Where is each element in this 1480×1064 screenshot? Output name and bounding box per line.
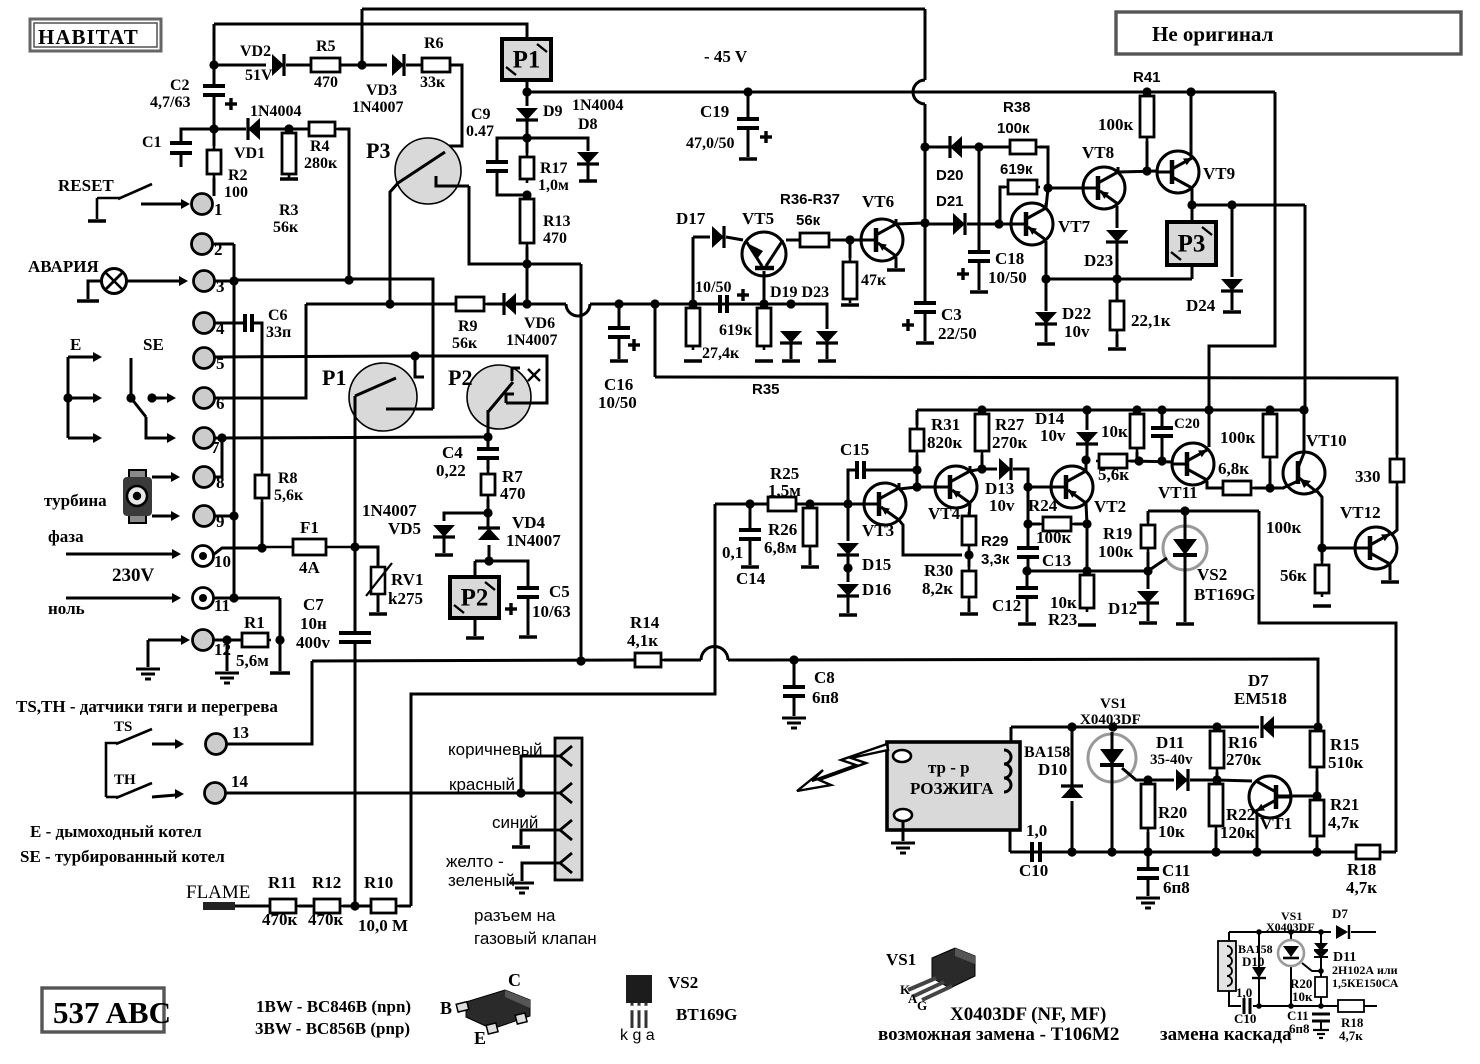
- svg-text:VS2: VS2: [668, 973, 698, 992]
- wire D12 stub: [1147, 571, 1150, 589]
- node t5/P2 box: [410, 351, 419, 360]
- svg-text:замена каскада: замена каскада: [1160, 1024, 1292, 1045]
- node SE pivot: [126, 393, 135, 402]
- wire VT5-R36: [786, 239, 800, 242]
- svg-text:0,1: 0,1: [722, 543, 743, 562]
- svg-text:6,8м: 6,8м: [764, 538, 797, 557]
- svg-text:R12: R12: [312, 873, 341, 892]
- svg-text:100к: 100к: [1266, 518, 1302, 537]
- svg-text:4,7к: 4,7к: [1328, 813, 1359, 832]
- svg-text:D12: D12: [1108, 599, 1137, 618]
- node R35 rail tap: [650, 299, 659, 308]
- resistor R22 120k: [1209, 780, 1223, 830]
- svg-text:10/50: 10/50: [598, 393, 637, 412]
- wire VT2 emitter: [1086, 503, 1087, 524]
- transistor VT2: [1051, 466, 1093, 508]
- svg-text:R15: R15: [1330, 735, 1359, 754]
- contact P3 internals: [398, 152, 469, 186]
- wire R29 bottom: [968, 549, 971, 567]
- svg-text:G: G: [917, 998, 927, 1013]
- svg-text:X0403DF: X0403DF: [1266, 920, 1315, 934]
- svg-text:100к: 100к: [1220, 428, 1256, 447]
- transistor VT9: [1157, 151, 1199, 193]
- svg-text:VS2: VS2: [1197, 565, 1227, 584]
- contact P1 internals: [355, 356, 433, 409]
- terminal bar C19: [739, 157, 757, 161]
- resistor R9 56k: [453, 297, 487, 311]
- wire terminal5 row: [215, 356, 415, 357]
- zener D22: [1035, 312, 1057, 324]
- svg-text:D11: D11: [1156, 733, 1184, 752]
- node 619k/R38/VT7c: [1043, 183, 1052, 192]
- wire t12 arrow: [148, 639, 182, 642]
- svg-text:10v: 10v: [1040, 426, 1066, 445]
- resistor 5,6k: [1096, 454, 1130, 468]
- svg-text:51V: 51V: [245, 67, 273, 84]
- wire VT7 collector: [1046, 188, 1048, 208]
- wire VT12 base row: [1322, 547, 1355, 550]
- svg-text:D16: D16: [862, 580, 891, 599]
- wire t7-t8 link: [215, 438, 222, 477]
- node R26 top: [805, 499, 814, 508]
- svg-text:2Н102А или: 2Н102А или: [1332, 963, 1398, 977]
- wire y410 rail: [917, 409, 1304, 412]
- switch RESET: [97, 184, 152, 219]
- resistor 6,8k: [1220, 481, 1254, 495]
- capacitor C5 10/63: [517, 588, 539, 597]
- svg-text:желто -: желто -: [446, 852, 504, 871]
- wire VD2 row: [214, 64, 266, 67]
- node D20 tee: [920, 142, 929, 151]
- wire E bracket: [67, 357, 70, 438]
- wire R2 to terminal1: [213, 178, 216, 196]
- svg-text:6п8: 6п8: [1289, 1021, 1310, 1036]
- node VS1 anode: [1108, 722, 1117, 731]
- svg-text:1N4004: 1N4004: [250, 103, 302, 120]
- wire C8 bottom: [793, 696, 796, 716]
- resistor 100k (R40): [1140, 92, 1154, 141]
- svg-text:R24: R24: [1028, 496, 1058, 515]
- svg-text:10к: 10к: [1292, 989, 1313, 1004]
- wire C18 riser: [978, 147, 981, 252]
- svg-text:537 ABC: 537 ABC: [53, 995, 171, 1030]
- svg-text:1N4004: 1N4004: [572, 97, 624, 114]
- transistor VT1: [1249, 776, 1291, 818]
- svg-text:VD3: VD3: [366, 82, 397, 99]
- wire D14 bottom: [1086, 445, 1089, 460]
- svg-text:10н: 10н: [300, 614, 327, 633]
- wire VT1 collector row: [1217, 780, 1252, 781]
- transistor VT6: [861, 219, 903, 261]
- fuse F1 4A: [262, 539, 355, 555]
- wire R16 bottom: [1216, 772, 1219, 780]
- svg-text:C6: C6: [268, 307, 288, 324]
- None: [450, 577, 499, 618]
- wire C14 stub: [749, 504, 752, 530]
- svg-text:56к: 56к: [452, 335, 478, 352]
- diode D17: [712, 226, 724, 248]
- node C12 top: [1022, 566, 1031, 575]
- wire t11 row: [214, 597, 280, 600]
- svg-text:VT8: VT8: [1082, 143, 1114, 162]
- wire C11 bottom: [1147, 878, 1150, 896]
- wire C16 bottom: [618, 337, 621, 359]
- svg-text:D7: D7: [1332, 906, 1348, 921]
- package SOT-23 drawing: [456, 990, 530, 1034]
- svg-text:VD4: VD4: [512, 513, 546, 532]
- wire VT6 collector: [896, 223, 925, 224]
- svg-text:100к: 100к: [997, 120, 1030, 137]
- svg-text:газовый клапан: газовый клапан: [474, 929, 597, 948]
- resistor R18 4,7k: [1353, 845, 1383, 859]
- resistor R21 4,7k: [1310, 796, 1324, 840]
- wire fuse-RV1: [355, 547, 378, 567]
- transistor VT8: [1083, 167, 1125, 209]
- node C15/D15: [843, 499, 852, 508]
- svg-text:C9: C9: [471, 106, 491, 123]
- node VT9/P3b: [1187, 200, 1196, 209]
- wire C14 bottom: [749, 539, 752, 565]
- svg-text:C18: C18: [995, 249, 1024, 268]
- package TO-92 VS1 3D: [908, 948, 975, 1000]
- resistor R38 100k: [1007, 140, 1039, 154]
- subcircuit resistor R20 small: [1315, 977, 1327, 997]
- svg-text:0,22: 0,22: [436, 461, 466, 480]
- capacitor C1: [170, 143, 192, 153]
- svg-text:470к: 470к: [262, 910, 298, 929]
- wire R1 left gnd: [226, 640, 229, 671]
- node VT3c/VT4b: [912, 482, 921, 491]
- None: [88, 219, 106, 223]
- diode D21: [953, 213, 965, 235]
- zener D23a: [816, 331, 838, 343]
- wire C13 bottom: [1027, 557, 1030, 571]
- wire C1 stub: [180, 152, 183, 167]
- diode VD1 1N4004: [248, 118, 260, 140]
- svg-text:1: 1: [214, 200, 223, 219]
- zener D14 10v: [1076, 432, 1098, 444]
- wire VT11 collector: [1208, 410, 1211, 447]
- wire VT10 collector: [1303, 410, 1306, 452]
- wire R31 top corner: [916, 410, 919, 425]
- node VS2 anode: [1180, 506, 1189, 515]
- wire 22,1k top stub: [1116, 279, 1119, 301]
- svg-text:4,1к: 4,1к: [627, 631, 658, 650]
- resistor R14 4,1k: [632, 653, 664, 667]
- wire R4 right riser: [338, 129, 349, 280]
- terminal 11 (ноль): [193, 588, 214, 609]
- wire C2-VD1 node: [213, 95, 216, 146]
- node D7/R15: [1313, 722, 1322, 731]
- wire R9-VD6: [487, 303, 504, 306]
- frame 537 ABC: [42, 988, 164, 1032]
- svg-text:10: 10: [214, 552, 231, 571]
- svg-text:C12: C12: [992, 596, 1021, 615]
- svg-text:1N4007: 1N4007: [362, 501, 417, 520]
- svg-text:1,0м: 1,0м: [538, 177, 569, 194]
- subcircuit diode D7 small: [1336, 925, 1349, 939]
- zener D24: [1221, 279, 1243, 291]
- wire t12 gnd leg: [147, 640, 150, 667]
- svg-text:33п: 33п: [266, 324, 291, 341]
- wire R31 bottom: [916, 455, 919, 487]
- svg-text:тр - р: тр - р: [928, 758, 970, 777]
- wire VT4 collector: [970, 469, 982, 471]
- svg-text:VT3: VT3: [862, 521, 894, 540]
- svg-text:VD5: VD5: [388, 519, 421, 538]
- svg-text:EM518: EM518: [1234, 689, 1287, 708]
- None: [720, 295, 727, 313]
- terminal bar D8: [579, 179, 597, 183]
- wire R38 right: [1039, 147, 1048, 188]
- subcircuit capacitor C11 small: [1312, 1014, 1330, 1021]
- wire t4-C6: [215, 322, 246, 325]
- node R21/rail: [1312, 847, 1321, 856]
- wire D7 right: [1273, 726, 1318, 729]
- wire D12 bottom: [1147, 604, 1150, 621]
- resistor R27 270k: [975, 410, 989, 455]
- wire -45V rail: [527, 91, 1275, 94]
- resistor R29 3,3k: [962, 512, 976, 549]
- wire VS1 cathode drop: [1111, 782, 1114, 852]
- svg-text:6,8к: 6,8к: [1218, 459, 1249, 478]
- relay coil P1 (box): [502, 39, 551, 80]
- wire D15 stub: [847, 504, 850, 541]
- svg-text:Не оригинал: Не оригинал: [1152, 22, 1274, 46]
- svg-text:TS,TH - датчики тяги и перегр: TS,TH - датчики тяги и перегрева: [16, 697, 278, 716]
- svg-text:14: 14: [231, 772, 249, 791]
- None: [203, 86, 225, 95]
- node R7/VD5/VD4: [483, 508, 492, 517]
- node C16 top: [614, 299, 623, 308]
- wire C19 stub: [747, 92, 750, 119]
- svg-text:6п8: 6п8: [812, 688, 839, 707]
- wire hop x715 over y660: [701, 647, 728, 661]
- wire желто-зеленый lead: [522, 863, 555, 881]
- capacitor C18 10/50: [968, 252, 990, 261]
- svg-text:C7: C7: [303, 595, 324, 614]
- wire VT4 emitter: [969, 503, 970, 518]
- svg-text:АВАРИЯ: АВАРИЯ: [28, 257, 99, 276]
- node bus/t3: [229, 276, 238, 285]
- node D11/R16/R22: [1212, 775, 1221, 784]
- svg-text:10к: 10к: [1158, 822, 1185, 841]
- svg-text:R31: R31: [931, 415, 960, 434]
- node R40 top: [1142, 87, 1151, 96]
- node R5/VD3: [357, 60, 366, 69]
- resistor R6 33k: [419, 58, 453, 72]
- terminal bar синий: [512, 845, 530, 849]
- wire hop over x581: [566, 304, 590, 316]
- wire R18 right: [1383, 851, 1396, 854]
- resistor R4 280k: [306, 122, 338, 136]
- subcircuit ground C11 small: [1313, 1030, 1329, 1038]
- node R15/R21/VT1b: [1312, 791, 1321, 800]
- svg-text:VT5: VT5: [742, 209, 774, 228]
- ground R1 left: [215, 673, 239, 683]
- svg-text:470: 470: [543, 230, 567, 247]
- wire y205 row: [1192, 204, 1305, 207]
- wire VD1-R4: [259, 128, 310, 131]
- svg-text:разъем на: разъем на: [474, 906, 556, 925]
- node bus/t9: [229, 511, 238, 520]
- node D12/VS2 gate: [1143, 566, 1152, 575]
- node y205/D24: [1227, 200, 1236, 209]
- svg-text:P1: P1: [513, 47, 541, 74]
- wire R26 bottom: [809, 550, 812, 565]
- svg-text:R3: R3: [279, 202, 299, 219]
- switch SE blade: [131, 398, 146, 417]
- connector разъем (block): [555, 738, 582, 880]
- wire P3b bottom: [1191, 265, 1194, 279]
- wire VT8 base row: [1048, 187, 1083, 190]
- svg-text:РОЗЖИГА: РОЗЖИГА: [910, 779, 994, 798]
- node x581/y660: [576, 656, 585, 665]
- diode VD5 1N4007: [433, 525, 455, 537]
- node D20/C18: [974, 142, 983, 151]
- wire C20 bottom: [1161, 436, 1164, 461]
- terminal bar R1 right: [270, 671, 290, 675]
- node R27 top: [977, 405, 986, 414]
- svg-text:27,4к: 27,4к: [702, 345, 740, 362]
- capacitor C19 47,0/50: [737, 119, 759, 128]
- wire D17 riser: [692, 237, 695, 304]
- svg-text:R35: R35: [752, 381, 780, 398]
- svg-text:1N4007: 1N4007: [506, 531, 561, 550]
- node R1 right: [275, 635, 284, 644]
- wire flame-R11: [235, 905, 270, 908]
- node C10/D10: [1067, 847, 1076, 856]
- transistor VT10: [1283, 452, 1325, 494]
- wire avaria row: [234, 279, 349, 282]
- capacitor C13: [1017, 548, 1039, 557]
- wire R27 bottom: [981, 455, 984, 469]
- node 100k d top: [1265, 405, 1274, 414]
- wire D19 stub: [790, 344, 793, 359]
- terminal bar D19: [782, 359, 800, 363]
- svg-text:E: E: [474, 1028, 486, 1048]
- wire VT2e drop: [1086, 524, 1089, 571]
- wire VT9 emitter riser: [1190, 92, 1193, 158]
- svg-text:E: E: [70, 335, 81, 354]
- diode D7 EM518: [1262, 716, 1274, 738]
- node D23b/22,1k: [1112, 274, 1121, 283]
- resistor R31 820k: [910, 425, 924, 455]
- terminal 4: [194, 313, 215, 334]
- wire 6,8k right: [1254, 487, 1284, 490]
- svg-text:X0403DF (NF, MF): X0403DF (NF, MF): [950, 1004, 1106, 1025]
- svg-text:4A: 4A: [299, 558, 321, 577]
- wire 100k d bottom: [1269, 461, 1272, 488]
- capacitor C14 0,1: [739, 530, 761, 539]
- lamp АВАРИЯ: [102, 269, 127, 294]
- node R23 top: [1082, 566, 1091, 575]
- terminal bar D22: [1037, 342, 1055, 346]
- wire y279 row: [1046, 278, 1192, 281]
- svg-text:C10: C10: [1019, 861, 1048, 880]
- svg-text:ноль: ноль: [48, 599, 85, 618]
- capacitor C8 6p8: [783, 687, 805, 696]
- svg-text:HABITAT: HABITAT: [38, 25, 139, 49]
- ground C11: [1136, 898, 1160, 908]
- diode VD3 1N4007: [392, 54, 404, 76]
- wire to C1: [181, 129, 214, 143]
- wire D11 right: [1190, 779, 1217, 782]
- node R20/C11: [1143, 847, 1152, 856]
- wire D15-D16: [847, 556, 850, 582]
- node VT1e/rail: [1252, 847, 1261, 856]
- relay coil P3 (box): [1167, 222, 1216, 265]
- wire VD4 bottom: [488, 545, 491, 561]
- wire D23b stub: [1116, 243, 1119, 279]
- svg-text:56к: 56к: [1280, 566, 1307, 585]
- svg-text:R8: R8: [278, 470, 298, 487]
- diode VD6 1N4007: [504, 293, 516, 315]
- node VS1k/rail: [1107, 847, 1116, 856]
- wire D21 row: [925, 223, 953, 226]
- svg-text:22,1к: 22,1к: [1131, 311, 1171, 330]
- svg-text:R21: R21: [1330, 795, 1359, 814]
- wire x715 riser top: [714, 504, 717, 648]
- svg-text:510к: 510к: [1328, 753, 1364, 772]
- wire TS arrow: [152, 743, 176, 746]
- wire P1 arm drop: [354, 396, 357, 547]
- svg-text:D8: D8: [578, 116, 598, 133]
- svg-text:1N4007: 1N4007: [506, 332, 558, 349]
- node C8 tap: [789, 655, 798, 664]
- ground C8: [782, 718, 806, 728]
- node VT9 rail: [1186, 87, 1195, 96]
- wire C16 stub: [618, 304, 621, 328]
- node VT6 base/47k: [845, 235, 854, 244]
- resistor R25 1,5m: [765, 497, 799, 511]
- terminal bar D23a: [818, 359, 836, 363]
- wire VS2 loop: [1259, 511, 1396, 852]
- node VD4/P2/C5: [484, 556, 493, 565]
- svg-text:8,2к: 8,2к: [922, 579, 953, 598]
- wire P3 mid leg: [469, 186, 581, 264]
- wire фаза arrow: [66, 553, 172, 556]
- wire C7 riser: [354, 547, 357, 633]
- terminal 5: [194, 348, 215, 369]
- svg-text:270к: 270к: [1226, 750, 1262, 769]
- terminal bar 47k: [841, 303, 859, 307]
- svg-text:10v: 10v: [1064, 322, 1090, 341]
- wire R36-VT6: [832, 239, 860, 242]
- None: [1005, 180, 1040, 194]
- svg-text:VT10: VT10: [1306, 431, 1347, 450]
- wire R35 rail: [655, 377, 1397, 455]
- contact P2 internals: [488, 368, 520, 437]
- svg-text:13: 13: [232, 723, 249, 742]
- svg-text:BT169G: BT169G: [1194, 585, 1255, 604]
- node 10k top: [1132, 405, 1141, 414]
- wire D16 stub: [847, 597, 850, 613]
- wire x581 drop: [580, 264, 583, 661]
- node D10 top: [1067, 722, 1076, 731]
- resistor R12 470k: [311, 899, 343, 913]
- node bus/t11: [229, 593, 238, 602]
- svg-text:R27: R27: [995, 415, 1025, 434]
- svg-text:VT4: VT4: [928, 504, 961, 523]
- wire E arrow2: [68, 397, 94, 400]
- wire P3b top: [1191, 205, 1194, 222]
- terminal bar R26: [801, 565, 819, 569]
- node fuse left: [257, 543, 266, 552]
- wire VT9 collector drop: [1191, 188, 1194, 205]
- wire C5 bottom: [527, 597, 530, 635]
- switch TS: [106, 729, 152, 797]
